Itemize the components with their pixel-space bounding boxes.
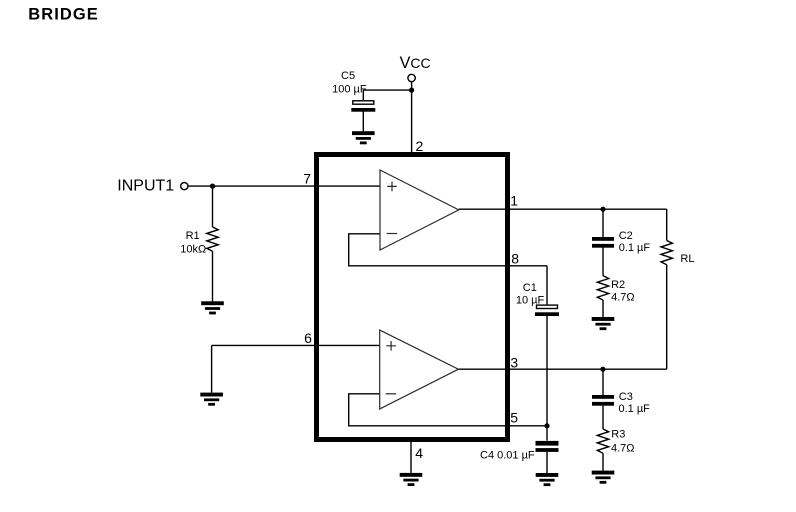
svg-text:4: 4	[415, 445, 423, 461]
svg-text:3: 3	[510, 354, 518, 370]
svg-text:VCC: VCC	[400, 54, 431, 72]
svg-text:2: 2	[416, 138, 424, 154]
svg-text:INPUT1: INPUT1	[117, 178, 174, 195]
svg-text:7: 7	[303, 171, 311, 187]
svg-text:R3: R3	[611, 429, 625, 441]
svg-text:RL: RL	[680, 253, 694, 265]
svg-text:C1: C1	[523, 282, 537, 294]
svg-text:6: 6	[304, 330, 312, 346]
svg-text:100 µF: 100 µF	[332, 83, 367, 95]
svg-text:4.7Ω: 4.7Ω	[611, 443, 635, 455]
svg-text:R2: R2	[611, 279, 625, 291]
svg-text:C4 0.01 µF: C4 0.01 µF	[480, 450, 535, 462]
svg-text:C2: C2	[619, 230, 633, 242]
svg-text:10 µF: 10 µF	[516, 295, 545, 307]
svg-text:10kΩ: 10kΩ	[180, 244, 206, 256]
svg-text:C5: C5	[341, 70, 355, 82]
svg-text:1: 1	[510, 193, 518, 209]
svg-text:5: 5	[510, 409, 518, 425]
svg-text:C3: C3	[619, 391, 633, 403]
svg-text:R1: R1	[186, 230, 200, 242]
svg-text:0.1 µF: 0.1 µF	[619, 403, 651, 415]
svg-text:8: 8	[511, 250, 519, 266]
svg-text:0.1 µF: 0.1 µF	[619, 242, 651, 254]
svg-text:4.7Ω: 4.7Ω	[611, 291, 635, 303]
svg-text:BRIDGE: BRIDGE	[28, 5, 98, 23]
